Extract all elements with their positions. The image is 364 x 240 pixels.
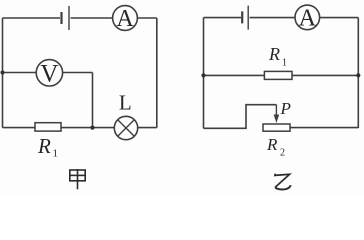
svg-text:2: 2 [280,148,285,159]
svg-text:V: V [40,61,58,88]
svg-text:1: 1 [53,148,59,160]
svg-text:R: R [37,134,51,158]
svg-text:A: A [116,6,134,32]
svg-text:1: 1 [282,58,287,69]
svg-text:R: R [268,44,280,64]
svg-text:R: R [266,135,278,154]
svg-text:P: P [280,99,291,118]
svg-text:A: A [299,5,317,31]
svg-text:L: L [119,90,132,114]
